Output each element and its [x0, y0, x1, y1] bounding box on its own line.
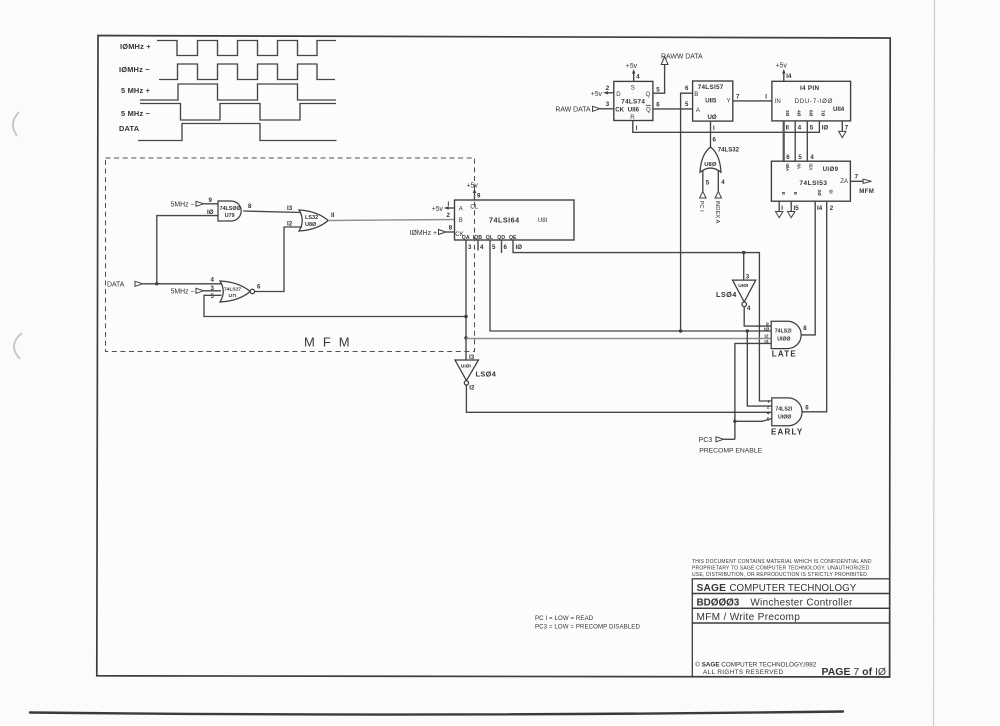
- svg-text:I2: I2: [764, 334, 768, 340]
- svg-text:3: 3: [606, 101, 610, 108]
- wire branch to EARLY pin 5: [735, 419, 772, 422]
- svg-text:SI: SI: [829, 190, 834, 194]
- svg-text:THIS DOCUMENT CONTAINS MATERIA: THIS DOCUMENT CONTAINS MATERIAL WHICH IS…: [692, 559, 872, 565]
- MFM dashed region box: [106, 158, 475, 352]
- svg-text:5: 5: [810, 125, 814, 132]
- svg-text:CK: CK: [615, 106, 624, 113]
- svg-text:II: II: [786, 125, 790, 132]
- svg-text:PC I = LOW = READ: PC I = LOW = READ: [535, 615, 594, 622]
- svg-text:+5v: +5v: [591, 91, 603, 98]
- svg-text:IØMHz −: IØMHz −: [119, 65, 150, 74]
- svg-text:B: B: [694, 91, 698, 98]
- svg-text:PC3: PC3: [699, 437, 713, 444]
- wire LATE output 8 to U109 pin 14: [801, 201, 815, 335]
- or gate U80 LS32: [287, 205, 335, 231]
- svg-text:I: I: [448, 201, 450, 208]
- wire branch to EARLY pin 2: [747, 331, 772, 406]
- svg-text:3Ø: 3Ø: [784, 110, 790, 117]
- wire U101 output 4 to LATE pin 9: [744, 307, 771, 327]
- svg-text:74LS2I: 74LS2I: [775, 328, 792, 334]
- svg-text:6Ø: 6Ø: [808, 110, 814, 117]
- nand gate U79 74LS00: [207, 197, 252, 221]
- power +5v at U81 pin 9 CL: [467, 183, 482, 201]
- svg-text:6: 6: [656, 102, 660, 109]
- svg-text:IØ: IØ: [516, 244, 523, 251]
- input RAW DATA at U116 pin 3 CK: [555, 101, 613, 113]
- svg-text:U79: U79: [225, 213, 235, 219]
- power +5v at U116 pin 2 D: [591, 85, 614, 98]
- nor gate U71 74LS27: [211, 276, 262, 302]
- svg-text:5: 5: [656, 86, 660, 93]
- svg-text:E: E: [781, 192, 786, 195]
- svg-text:IØ: IØ: [207, 209, 214, 216]
- svg-text:I4: I4: [817, 205, 823, 212]
- svg-text:I5: I5: [794, 205, 800, 212]
- svg-text:UII4: UII4: [833, 106, 845, 113]
- node QE-inverter junction: [742, 251, 745, 254]
- ground at U109 pin 1: [776, 201, 784, 218]
- mux U109 74LS153: [771, 161, 850, 201]
- wire U116 pin 6 Qbar to U115 pin 5 A: [653, 108, 693, 110]
- wire U71 output 6 to U80 pin 12: [255, 227, 302, 292]
- title block copyright box: [692, 623, 889, 678]
- svg-text:DATA: DATA: [119, 124, 140, 133]
- wire 5MHz- to U71 pin 3: [204, 290, 222, 292]
- svg-text:74LSØØ: 74LSØØ: [220, 206, 241, 212]
- title block company row: [692, 579, 889, 594]
- mux U115 74LS157: [693, 81, 733, 121]
- wire U115 pin 1 to U80 output: [710, 121, 712, 147]
- svg-text:Q: Q: [646, 107, 651, 114]
- waveform 10MHz-: [159, 64, 335, 80]
- wire QA line to LATE pin 12: [466, 338, 771, 340]
- svg-text:U8Ø: U8Ø: [305, 222, 317, 228]
- wire U81 QE pin 10 to EARLY pin 1: [513, 240, 772, 401]
- svg-text:IØMHz +: IØMHz +: [410, 230, 437, 237]
- svg-text:IØ: IØ: [764, 326, 769, 332]
- wire U80 output 11 to U81 pin B: [328, 220, 455, 221]
- pin numbers below U109: [817, 205, 834, 212]
- and gate U100 74LS21 LATE: [764, 321, 807, 358]
- node QA-late junction: [464, 336, 467, 339]
- node early pin2 branch junction: [746, 329, 749, 332]
- svg-text:2: 2: [830, 205, 834, 212]
- svg-text:UIØI: UIØI: [461, 364, 472, 370]
- svg-text:6: 6: [805, 405, 809, 412]
- power +5v at U114 pin 14: [776, 63, 792, 82]
- svg-text:PC3 = LOW = PRECOMP DISABLED: PC3 = LOW = PRECOMP DISABLED: [535, 624, 640, 631]
- svg-text:U8Ø: U8Ø: [704, 162, 717, 168]
- svg-text:4: 4: [767, 410, 770, 416]
- svg-text:3: 3: [746, 274, 750, 281]
- svg-text:UII5: UII5: [705, 98, 717, 105]
- svg-text:EARLY: EARLY: [771, 427, 803, 436]
- svg-text:PRECOMP ENABLE: PRECOMP ENABLE: [699, 447, 762, 454]
- input 5MHz- at U71 pin 3: [171, 288, 204, 295]
- svg-text:2: 2: [767, 404, 770, 410]
- inverter U101 LS04 (3-4): [716, 253, 756, 312]
- wire DATA junction to U79 pin 10: [157, 216, 218, 284]
- svg-text:UIØI: UIØI: [738, 283, 749, 289]
- svg-text:+5v: +5v: [776, 63, 788, 70]
- svg-text:UIØ9: UIØ9: [823, 166, 839, 173]
- wire U116 pin 1 R to U114 tap 10: [633, 121, 820, 133]
- svg-text:DDU-7-IØØ: DDU-7-IØØ: [795, 98, 834, 105]
- svg-text:I3: I3: [764, 339, 768, 345]
- svg-text:SAGE: SAGE: [697, 583, 727, 594]
- svg-text:5 MHz −: 5 MHz −: [121, 109, 151, 118]
- svg-text:5MHz −: 5MHz −: [171, 288, 195, 295]
- svg-text:I2A: I2A: [809, 164, 814, 171]
- node QA-pin5 junction: [464, 315, 467, 318]
- flip-flop U116 74LS74: [614, 81, 653, 121]
- wire U114 tap 4 to U109 pin 5: [794, 121, 796, 161]
- wire U81 QA pin 3 down to inverter U101: [465, 240, 467, 360]
- wire U79 output 8 to U80 pin 13: [243, 211, 301, 213]
- svg-text:U8I: U8I: [538, 217, 548, 224]
- node PC3-early junction: [733, 420, 736, 423]
- svg-text:I3: I3: [469, 354, 475, 361]
- input 5MHz- at U79 pin 9: [171, 201, 204, 208]
- svg-text:UIØØ: UIØØ: [778, 414, 791, 420]
- output RAWW DATA from U116 pin 5 Q: [653, 53, 703, 93]
- wire U80 input pin 5 with PC1 arrow: [698, 171, 710, 213]
- node DATA junction: [155, 282, 158, 285]
- svg-text:74LSI57: 74LSI57: [698, 84, 724, 91]
- waveform 5MHz-: [140, 104, 336, 121]
- svg-text:COMPUTER TECHNOLOGY: COMPUTER TECHNOLOGY: [730, 583, 857, 594]
- pin numbers above U109: [786, 154, 814, 161]
- svg-text:5MHz −: 5MHz −: [171, 201, 195, 208]
- svg-text:IØA: IØA: [785, 164, 790, 172]
- svg-text:I4: I4: [786, 73, 792, 80]
- svg-text:D: D: [616, 91, 621, 98]
- wire U101 output 12 to EARLY pin 4: [466, 385, 771, 412]
- and gate U100 74LS21 EARLY: [767, 398, 810, 436]
- svg-text:IØ: IØ: [822, 125, 829, 132]
- svg-text:USE, DISTRIBUTION, OR REPRODUC: USE, DISTRIBUTION, OR REPRODUCTION IS ST…: [692, 572, 869, 578]
- svg-text:IIA: IIA: [797, 164, 802, 170]
- input DATA: [107, 281, 143, 288]
- node QL-U115B junction: [679, 329, 682, 332]
- or gate U80 74LS32 (vertical): [700, 147, 740, 173]
- output MFM from U109 pin 7: [850, 173, 874, 195]
- svg-text:B: B: [459, 217, 463, 224]
- wire U81 QL pin 5 to LATE pin 10: [490, 240, 771, 331]
- waveform 5MHz+: [140, 84, 336, 100]
- pin numbers below U114: [786, 125, 849, 132]
- waveform DATA: [138, 124, 337, 141]
- wire U115 pin 6 B down to QL line: [681, 93, 693, 331]
- svg-text:UII6: UII6: [628, 106, 640, 113]
- wire EARLY output 6 to U109 pin 2: [802, 201, 827, 412]
- wire U114 tap 5 to U109 pin 4: [806, 121, 808, 161]
- svg-text:I: I: [765, 93, 767, 100]
- svg-text:IØMHz +: IØMHz +: [120, 42, 151, 51]
- wire 5MHz- to U79 pin 9: [204, 203, 219, 205]
- svg-text:+5v: +5v: [432, 206, 444, 213]
- waveform 10MHz+: [157, 41, 336, 56]
- wire U114 tap 11 to U109 pin 6: [783, 121, 785, 161]
- wire U80 input pin 4 with INDEX A arrow: [714, 171, 725, 224]
- svg-text:I: I: [636, 125, 638, 132]
- svg-text:UØ: UØ: [708, 114, 717, 121]
- svg-text:R: R: [630, 114, 635, 121]
- svg-text:U7I: U7I: [229, 293, 237, 299]
- ground at U114 pin 7: [839, 121, 846, 138]
- svg-text:LSØ4: LSØ4: [476, 369, 497, 378]
- wire U81 QD pin 6 stub: [501, 240, 503, 253]
- svg-text:7Ø: 7Ø: [820, 110, 826, 117]
- svg-text:IN: IN: [775, 98, 781, 105]
- svg-text:ALL RIGHTS RESERVED: ALL RIGHTS RESERVED: [703, 669, 783, 676]
- svg-text:PROPRIETARY TO SAGE COMPUTER T: PROPRIETARY TO SAGE COMPUTER TECHNOLOGY.…: [692, 566, 870, 572]
- svg-text:5 MHz +: 5 MHz +: [121, 86, 151, 95]
- svg-text:RAW DATA: RAW DATA: [555, 106, 590, 113]
- svg-text:Y: Y: [727, 97, 731, 104]
- svg-text:8: 8: [449, 224, 453, 231]
- svg-text:Winchester Controller: Winchester Controller: [750, 597, 853, 608]
- svg-text:PAGE 7 of IØ: PAGE 7 of IØ: [822, 666, 887, 678]
- svg-text:ZA: ZA: [840, 178, 849, 185]
- wire DATA to U71 pin 4: [143, 283, 223, 285]
- svg-text:4: 4: [798, 125, 802, 132]
- svg-text:5: 5: [706, 180, 710, 187]
- wire U115 pin 7 Y to U114 IN: [733, 100, 772, 102]
- svg-text:LS32: LS32: [305, 215, 318, 221]
- svg-text:E: E: [793, 192, 798, 195]
- note PC1/PC3 legend: [535, 615, 640, 631]
- svg-text:74LSI53: 74LSI53: [799, 180, 827, 187]
- title block sheet row: [692, 608, 889, 623]
- svg-text:BDØØØ3: BDØØØ3: [697, 597, 740, 608]
- power +5v at U81 pin 1 A: [432, 201, 455, 213]
- svg-text:MFM: MFM: [304, 335, 358, 350]
- wire U81 QB pin 4 stub: [477, 240, 479, 251]
- svg-text:I: I: [781, 205, 783, 212]
- svg-text:LATE: LATE: [772, 349, 797, 358]
- delay line U114 DDU-7-100: [772, 81, 851, 121]
- svg-text:RAWW DATA: RAWW DATA: [661, 53, 703, 60]
- svg-text:8: 8: [803, 325, 807, 332]
- svg-text:I: I: [713, 125, 715, 132]
- svg-text:DATA: DATA: [107, 282, 125, 289]
- svg-text:5: 5: [767, 416, 770, 422]
- svg-text:S: S: [631, 84, 635, 91]
- svg-text:74LS74: 74LS74: [621, 98, 645, 105]
- svg-text:74LSI64: 74LSI64: [489, 216, 520, 225]
- power +5v at U116 pin 4 S: [626, 63, 641, 82]
- svg-text:+5v: +5v: [467, 183, 479, 190]
- svg-text:4: 4: [636, 74, 640, 81]
- ground at U109 pin 15: [788, 201, 800, 218]
- svg-text:LSØ4: LSØ4: [716, 290, 737, 299]
- pin numbers U81 outputs: [468, 244, 522, 251]
- svg-text:PC I: PC I: [698, 201, 704, 213]
- svg-text:© SAGE COMPUTER TECHNOLOGY,I: © SAGE COMPUTER TECHNOLOGY,I982: [695, 660, 816, 668]
- svg-text:I2: I2: [469, 384, 475, 391]
- svg-text:MFM: MFM: [859, 188, 874, 195]
- svg-text:74LS2I: 74LS2I: [775, 406, 792, 412]
- svg-text:Q: Q: [646, 91, 651, 98]
- svg-text:74LS27: 74LS27: [224, 286, 241, 292]
- svg-text:II: II: [331, 212, 335, 219]
- svg-text:UIØØ: UIØØ: [777, 336, 790, 342]
- inverter U101 LS04 (13-12): [455, 354, 497, 391]
- svg-text:SØ: SØ: [817, 190, 822, 197]
- svg-text:2: 2: [606, 85, 610, 92]
- shift register U81 74LS164: [455, 200, 575, 241]
- svg-text:7: 7: [845, 125, 849, 132]
- svg-text:MFM / Write Precomp: MFM / Write Precomp: [697, 612, 801, 623]
- svg-text:I4 PIN: I4 PIN: [800, 85, 819, 92]
- svg-text:+5v: +5v: [626, 63, 638, 70]
- svg-text:74LS32: 74LS32: [718, 147, 740, 154]
- input PC3: [699, 437, 735, 444]
- wire U71 pin 5 feedback from QA line: [204, 295, 466, 316]
- wire PC3 vertical to LATE pin 13: [735, 343, 771, 439]
- svg-text:INDEX A: INDEX A: [714, 201, 720, 224]
- title block project row: [692, 594, 889, 609]
- title block confidentiality note: [692, 559, 872, 578]
- svg-text:4Ø: 4Ø: [796, 110, 802, 117]
- input 10MHz+ at U81 pin 8 CK: [410, 224, 455, 237]
- svg-text:I3: I3: [287, 205, 293, 212]
